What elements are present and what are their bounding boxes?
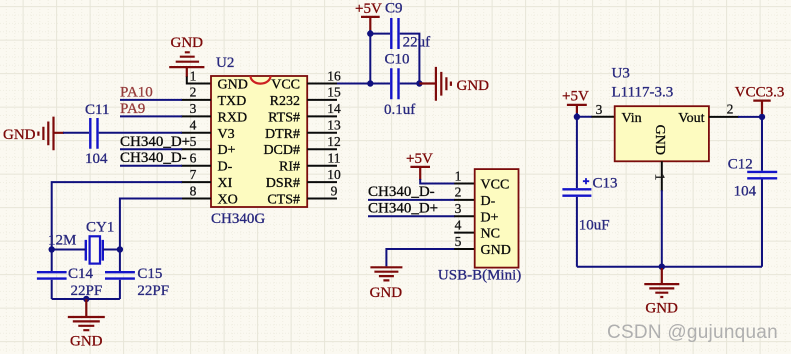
ground GND (below C14/C15) [68, 299, 105, 349]
svg-text:16: 16 [327, 68, 341, 83]
svg-text:4: 4 [190, 118, 197, 133]
USB pin 4 stub [454, 232, 475, 234]
svg-text:1: 1 [190, 68, 197, 83]
svg-text:GND: GND [370, 285, 403, 301]
svg-text:DSR#: DSR# [266, 176, 300, 191]
junction node at +5V/C9 [367, 30, 373, 36]
U2 pin 3 stub [181, 115, 211, 117]
svg-text:10uF: 10uF [579, 217, 610, 233]
svg-text:13: 13 [327, 118, 341, 133]
svg-text:RTS#: RTS# [268, 110, 300, 125]
svg-text:GND: GND [645, 300, 678, 316]
svg-text:10: 10 [327, 167, 341, 182]
svg-text:VCC3.3: VCC3.3 [735, 84, 785, 100]
svg-text:XI: XI [218, 176, 233, 191]
svg-text:9: 9 [331, 183, 338, 198]
junction node XO/C15 [117, 246, 123, 252]
U2 pin 9 stub [307, 198, 337, 200]
wire C9 to right branch down [400, 34, 420, 84]
svg-text:C14: C14 [68, 266, 94, 282]
svg-text:+5V: +5V [562, 88, 589, 104]
USB pin 1 stub [454, 183, 475, 185]
svg-text:C9: C9 [385, 1, 403, 17]
svg-text:11: 11 [328, 151, 341, 166]
power +5V (top, at C9) [355, 1, 382, 31]
junction node C9/C10/GND [416, 80, 422, 86]
wire pin1 to ground [187, 77, 211, 84]
wire C12 to bottom rail [761, 180, 763, 267]
ground GND (top, at U2 pin 1) [169, 35, 204, 77]
ground GND (right of C10, sideways) [419, 67, 489, 101]
U2 pin 12 stub [307, 148, 337, 150]
ground GND (below U3) [644, 268, 679, 316]
svg-text:NC: NC [481, 227, 500, 242]
capacitor C11 [85, 102, 109, 167]
wire bottom rail U3 [577, 266, 762, 268]
svg-text:GND: GND [457, 78, 490, 94]
wire C13 to bottom rail [576, 197, 578, 267]
svg-text:C10: C10 [385, 51, 410, 67]
U2 pin 4 stub [181, 132, 211, 134]
svg-text:U3: U3 [612, 66, 630, 82]
U2 pin 15 stub [307, 99, 337, 101]
ground GND (left of C11, sideways) [3, 117, 64, 151]
svg-text:GND: GND [652, 125, 667, 155]
capacitor C12 [728, 156, 777, 199]
wire bottom rail C14-C15 [52, 298, 120, 300]
U3 pin 3 stub [592, 116, 615, 118]
wire VCC3.3 node down to C12 [761, 117, 763, 171]
svg-text:4: 4 [455, 217, 462, 232]
capacitor C15 [105, 266, 169, 299]
svg-text:C11: C11 [85, 102, 109, 118]
svg-text:15: 15 [327, 85, 341, 100]
svg-text:2: 2 [455, 185, 462, 200]
svg-text:CY1: CY1 [86, 220, 114, 236]
IC U2 CH340G body [211, 76, 307, 207]
svg-text:VCC: VCC [271, 78, 300, 93]
U2 notch arc [251, 76, 271, 84]
power +5V (at U3) [562, 88, 589, 114]
svg-text:0.1uf: 0.1uf [384, 102, 415, 118]
ground GND (below USB) [370, 267, 403, 301]
svg-text:V3: V3 [218, 127, 235, 142]
svg-text:3: 3 [596, 102, 603, 117]
junction node rail/GND [83, 296, 89, 302]
wire +5V node down to pin16 rail [369, 34, 371, 84]
wire net PA9 [120, 115, 182, 117]
svg-text:GND: GND [218, 78, 248, 93]
svg-text:CH340_D+: CH340_D+ [120, 134, 190, 150]
U2 pin 10 stub [307, 181, 337, 183]
U2 pin 2 stub [181, 99, 211, 101]
power VCC3.3 [735, 84, 785, 114]
svg-text:RXD: RXD [218, 110, 248, 125]
svg-text:Vout: Vout [678, 111, 704, 126]
svg-text:D-: D- [218, 160, 233, 175]
connector USB-B(Mini) body [475, 169, 519, 268]
U3 pin 2 stub [709, 116, 739, 118]
U2 pin 11 stub [307, 165, 337, 167]
svg-text:GND: GND [3, 127, 36, 143]
svg-text:1: 1 [455, 168, 462, 183]
svg-text:2: 2 [190, 85, 197, 100]
wire crystal left lead [52, 249, 86, 251]
svg-text:TXD: TXD [218, 94, 247, 109]
svg-text:+5V: +5V [406, 151, 433, 167]
svg-text:12: 12 [327, 134, 341, 149]
svg-text:Vin: Vin [622, 111, 642, 126]
wire +5V node down to C13 [576, 117, 578, 188]
U2 pin numbers left [190, 68, 197, 198]
U2 pin 16 stub [307, 83, 337, 85]
svg-text:D+: D+ [481, 210, 499, 225]
svg-text:CTS#: CTS# [267, 193, 300, 208]
U2 pin numbers right [327, 68, 341, 198]
svg-text:GND: GND [70, 333, 103, 349]
wire C15 to bottom rail [119, 280, 121, 299]
svg-text:RI#: RI# [279, 160, 300, 175]
svg-text:GND: GND [481, 243, 511, 258]
wire XO to crystal right node [120, 198, 182, 250]
junction node pin16/+5V [367, 80, 373, 86]
svg-text:C12: C12 [728, 156, 753, 172]
svg-text:U2: U2 [216, 55, 234, 71]
U2 pin 6 stub [181, 165, 211, 167]
svg-text:CSDN @gujunquan: CSDN @gujunquan [607, 322, 778, 343]
svg-text:CH340_D-: CH340_D- [368, 184, 435, 200]
junction node +5V/C13 [574, 114, 580, 120]
svg-text:USB-B(Mini): USB-B(Mini) [438, 268, 521, 284]
USB pin numbers [455, 168, 462, 249]
U2 pin 14 stub [307, 115, 337, 117]
junction node XI/C14 [49, 246, 55, 252]
capacitor C14 [37, 266, 102, 299]
junction node VCC3.3/C12 [759, 114, 765, 120]
wire USB pin5 to ground [386, 249, 455, 266]
wire net CH340_D+ to USB pin3 [368, 215, 455, 217]
junction node rail/GND (U3) [659, 264, 665, 270]
wire node to C15 [119, 250, 121, 272]
svg-text:R232: R232 [270, 94, 300, 109]
svg-text:DCD#: DCD# [263, 143, 300, 158]
svg-text:PA9: PA9 [120, 101, 145, 117]
svg-text:1: 1 [653, 174, 668, 181]
wire C14 to bottom rail [51, 280, 53, 299]
U2 pin 7 stub [181, 181, 211, 183]
wire C10 to GND node [400, 83, 420, 85]
svg-text:CH340G: CH340G [211, 211, 265, 227]
wire GND to C11 [63, 132, 89, 134]
wire crystal right lead [103, 249, 120, 251]
svg-text:14: 14 [327, 101, 341, 116]
svg-text:C15: C15 [137, 266, 162, 282]
svg-text:2: 2 [727, 101, 734, 116]
svg-text:DTR#: DTR# [265, 127, 300, 142]
svg-text:L1117-3.3: L1117-3.3 [612, 84, 674, 100]
svg-text:22PF: 22PF [137, 283, 169, 299]
capacitor C9 [385, 1, 430, 51]
wire node to C14 [51, 250, 53, 272]
svg-text:PA10: PA10 [120, 84, 153, 100]
USB pin 5 stub [454, 248, 475, 250]
svg-text:3: 3 [190, 101, 197, 116]
svg-text:8: 8 [190, 183, 197, 198]
svg-text:C13: C13 [593, 175, 618, 191]
svg-text:3: 3 [455, 201, 462, 216]
wire net CH340_D- [120, 165, 182, 167]
wire net CH340_D- to USB pin2 [368, 199, 455, 201]
capacitor C10 [384, 51, 415, 118]
wire +5V to USB pin1 [420, 179, 455, 184]
svg-text:12M: 12M [48, 233, 76, 249]
USB pin 2 stub [454, 199, 475, 201]
U2 pin 13 stub [307, 132, 337, 134]
wire XI to crystal left node [52, 181, 182, 249]
svg-text:+5V: +5V [355, 1, 382, 17]
crystal CY1 [48, 220, 114, 264]
U2 pin 8 stub [181, 198, 211, 200]
svg-text:104: 104 [734, 184, 757, 200]
svg-text:D+: D+ [218, 143, 236, 158]
wire U3 pin1 to bottom rail [661, 190, 663, 266]
svg-text:5: 5 [190, 134, 197, 149]
regulator U3 body [615, 106, 709, 161]
USB pin 3 stub [454, 215, 475, 217]
wire pin16 to C10 [337, 83, 390, 85]
svg-text:VCC: VCC [481, 178, 510, 193]
wire U3 pin2 to VCC3.3 node [738, 116, 762, 118]
svg-text:6: 6 [190, 151, 197, 166]
power +5V (at USB pin 1) [406, 151, 433, 180]
svg-text:22uf: 22uf [403, 34, 431, 50]
wire +5V node to C9 [370, 30, 390, 34]
svg-text:CH340_D-: CH340_D- [120, 150, 187, 166]
svg-text:5: 5 [455, 234, 462, 249]
U2 pin 5 stub [181, 148, 211, 150]
svg-text:D-: D- [481, 194, 496, 209]
wire C11 to U2 pin 4 [99, 132, 182, 134]
svg-text:XO: XO [218, 193, 238, 208]
svg-text:CH340_D+: CH340_D+ [368, 200, 438, 216]
wire +5V to U3 pin 3 [577, 113, 592, 117]
capacitor C13 (polarized) [562, 175, 617, 233]
svg-text:GND: GND [171, 35, 204, 51]
svg-text:104: 104 [85, 151, 108, 167]
U3 pin 1 stub (down) [661, 161, 663, 191]
wire net PA10 [120, 99, 182, 101]
wire net CH340_D+ [120, 148, 182, 150]
svg-text:7: 7 [190, 167, 197, 182]
